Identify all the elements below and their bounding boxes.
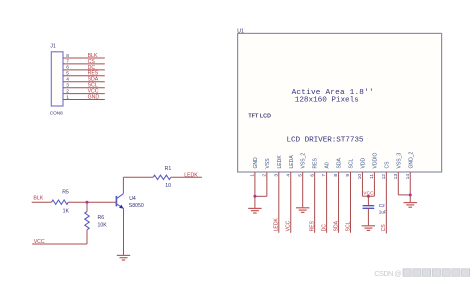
svg-text:A0: A0 (325, 162, 331, 168)
node VCC label pins 10-11 (363, 190, 374, 196)
node GND (88, 94, 100, 100)
node LEDK label (274, 217, 280, 231)
svg-text:DC: DC (321, 224, 327, 232)
svg-text:10K: 10K (98, 222, 108, 228)
pin 2 VSS (261, 158, 270, 177)
node CS label (381, 224, 387, 232)
wire pin9 SCL (350, 172, 352, 233)
text LCD driver (287, 136, 364, 144)
node base junction (86, 201, 89, 204)
wire J1 pin 3 net SCL (63, 83, 105, 89)
node BLK (33, 196, 43, 202)
svg-text:3: 3 (66, 83, 69, 89)
wire pin2 VSS (255, 172, 267, 196)
svg-text:C2: C2 (379, 203, 385, 208)
svg-text:VSS_3: VSS_3 (396, 153, 402, 169)
wire pin1 GND (254, 172, 256, 196)
svg-text:CON8: CON8 (50, 111, 63, 116)
ground pins 13-14 (404, 203, 417, 208)
wire pin14 GND_2 (409, 172, 411, 195)
svg-text:7: 7 (66, 59, 69, 65)
text active area (292, 89, 374, 105)
node DC label (321, 224, 327, 232)
wire J1 pin 6 net DC (63, 65, 105, 71)
pin 12 CS (381, 161, 390, 179)
svg-text:VDDIO: VDDIO (372, 152, 378, 168)
pin 1 GND (250, 157, 259, 177)
svg-text:GND: GND (253, 157, 259, 169)
wire pin7 A0 (326, 172, 328, 233)
wire pin13 VSS_3 (398, 172, 410, 195)
svg-text:R1: R1 (165, 166, 172, 172)
wire pin8 SDA (338, 172, 340, 233)
wire R1 to LEDK (171, 176, 202, 178)
wire J1 pin 1 net GND (63, 94, 105, 100)
wire pin4 LEDA (290, 172, 292, 233)
resistor R1 10 (153, 166, 171, 189)
ground emitter (117, 255, 130, 260)
svg-text:J1: J1 (50, 44, 56, 50)
svg-text:1K: 1K (63, 208, 70, 214)
wire pin11 VDDIO (362, 172, 374, 196)
ground pin5 (296, 208, 309, 213)
wire to ground 13-14 (409, 195, 411, 202)
pin 11 VDDIO (369, 152, 378, 179)
svg-text:CS: CS (384, 161, 390, 169)
node SCL label (345, 221, 351, 231)
wire pin3 LEDK (278, 172, 280, 233)
svg-text:TFT LCD: TFT LCD (248, 114, 271, 120)
wire C2 to ground (367, 208, 369, 225)
wire emitter down (123, 208, 125, 255)
node SCL (88, 83, 98, 89)
svg-text:VSS_2: VSS_2 (301, 153, 307, 169)
svg-text:U4: U4 (129, 196, 136, 202)
svg-text:1uF: 1uF (379, 210, 387, 215)
pin 5 VSS_2 (297, 153, 306, 177)
wire to ground (254, 196, 256, 208)
wire J1 pin 7 net CS (63, 59, 105, 65)
svg-text:CS: CS (381, 224, 387, 232)
svg-text:GND_2: GND_2 (408, 151, 414, 168)
wire J1 pin 5 net RES (63, 71, 105, 77)
ground pins 1-2 (248, 208, 261, 213)
svg-text:RES: RES (313, 157, 319, 168)
svg-text:8: 8 (66, 53, 69, 59)
node DC (88, 65, 96, 71)
wire R5 to base (68, 201, 115, 203)
svg-text:LEDK: LEDK (184, 172, 198, 178)
svg-text:LEDA: LEDA (289, 155, 295, 169)
watermark (374, 269, 469, 278)
svg-text:R5: R5 (62, 190, 69, 196)
ground C2 (362, 226, 375, 231)
wire to C2 (367, 196, 369, 205)
pin 7 A0 (321, 162, 330, 177)
pin 9 SCL (345, 158, 354, 176)
svg-text:GND: GND (88, 94, 100, 100)
svg-text:VCC: VCC (286, 220, 292, 231)
node SDA (88, 77, 99, 83)
svg-text:LEDK: LEDK (274, 217, 280, 231)
svg-text:SCL: SCL (349, 158, 355, 168)
node LEDK (184, 172, 198, 178)
pin 10 VDD (357, 157, 366, 179)
svg-text:CSDN @: CSDN @ (374, 269, 402, 278)
svg-text:VCC: VCC (34, 239, 45, 245)
node junction pins 10-11 (367, 195, 370, 198)
svg-text:LCD DRIVER:ST7735: LCD DRIVER:ST7735 (287, 136, 364, 144)
svg-text:SDA: SDA (337, 157, 343, 168)
pin 4 LEDA (285, 155, 294, 177)
wire J1 pin 4 net SDA (63, 77, 105, 83)
wire BLK to R5 (32, 201, 52, 203)
svg-text:1: 1 (66, 94, 69, 100)
svg-text:VSS: VSS (265, 158, 271, 169)
connector J1 (50, 44, 63, 116)
wire junction to R6 (86, 202, 88, 211)
LCD module U1 (237, 28, 441, 172)
svg-text:5: 5 (66, 71, 69, 77)
capacitor C2 1uF (363, 203, 387, 214)
text TFT LCD (248, 114, 271, 120)
wire pin10 VDD (361, 172, 363, 196)
wire J1 pin 2 net VCC (63, 88, 105, 94)
svg-text:128x160 Pixels: 128x160 Pixels (295, 96, 359, 104)
svg-text:4: 4 (66, 77, 69, 83)
svg-text:6: 6 (66, 65, 69, 71)
svg-text:S8050: S8050 (129, 203, 144, 209)
pin 3 LEDK (273, 155, 282, 177)
wire pin12 CS (385, 172, 387, 234)
transistor U4 S8050 (116, 194, 144, 209)
svg-text:10: 10 (165, 183, 171, 189)
pin 14 GND_2 (405, 151, 414, 179)
node VCC (34, 239, 45, 245)
node VCC (88, 89, 99, 95)
svg-text:SDA: SDA (333, 220, 339, 231)
node junction pins 1-2 (253, 195, 256, 198)
wire R6 to VCC (32, 230, 87, 244)
pin 13 VSS_3 (393, 153, 402, 180)
svg-text:2: 2 (66, 88, 69, 94)
wire collector up (123, 177, 153, 193)
node junction pins 13-14 (409, 194, 412, 197)
pin 6 RES (309, 157, 318, 176)
wire J1 pin 8 net BLK (63, 53, 105, 59)
resistor R5 1K (52, 190, 70, 215)
svg-text:BLK: BLK (33, 196, 43, 202)
svg-text:SCL: SCL (345, 221, 351, 231)
svg-text:VDD: VDD (360, 157, 366, 168)
node SDA label (333, 220, 339, 231)
node BLK (88, 53, 98, 59)
node VCC label pin4 (286, 220, 292, 231)
node RES (88, 71, 99, 77)
pin 8 SDA (333, 157, 342, 176)
svg-text:RES: RES (309, 220, 315, 231)
node CS (88, 59, 96, 65)
node RES label (309, 220, 315, 231)
wire pin6 RES (314, 172, 316, 233)
resistor R6 10K (85, 212, 107, 230)
svg-text:LEDK: LEDK (277, 155, 283, 169)
wire pin5 VSS_2 (302, 172, 304, 208)
svg-text:R6: R6 (98, 215, 105, 221)
